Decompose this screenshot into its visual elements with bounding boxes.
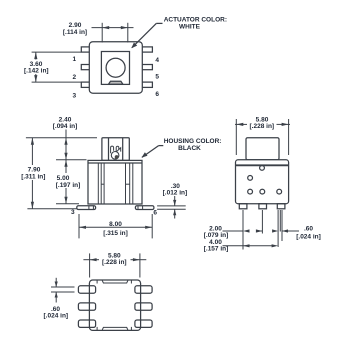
svg-text:[.228 in]: [.228 in] [250,123,275,130]
svg-text:[.024 in]: [.024 in] [44,312,69,319]
svg-text:[.142 in]: [.142 in] [24,68,49,75]
svg-text:[.197 in]: [.197 in] [56,182,81,189]
svg-text:[.024 in]: [.024 in] [296,233,321,240]
svg-text:[.315 in]: [.315 in] [103,230,128,237]
svg-text:1: 1 [72,56,76,63]
svg-text:4: 4 [155,57,159,64]
svg-text:8.00: 8.00 [109,221,122,228]
svg-text:3: 3 [71,209,75,216]
svg-text:2: 2 [72,74,76,81]
svg-text:BLACK: BLACK [178,145,201,152]
svg-text:[.114 in]: [.114 in] [63,29,87,36]
svg-text:[.157 in]: [.157 in] [204,246,229,253]
svg-text:[.012 in]: [.012 in] [163,190,188,197]
svg-text:6: 6 [155,91,159,98]
svg-text:.60: .60 [304,226,313,233]
svg-text:6: 6 [153,209,157,216]
svg-text:7.90: 7.90 [28,167,41,174]
svg-text:5: 5 [155,74,159,81]
svg-text:5.00: 5.00 [57,175,70,182]
svg-text:3: 3 [72,93,76,100]
svg-text:WHITE: WHITE [179,24,201,31]
svg-text:[.311 in]: [.311 in] [21,174,45,181]
svg-text:[.228 in]: [.228 in] [102,259,127,266]
svg-text:[.094 in]: [.094 in] [53,123,78,130]
